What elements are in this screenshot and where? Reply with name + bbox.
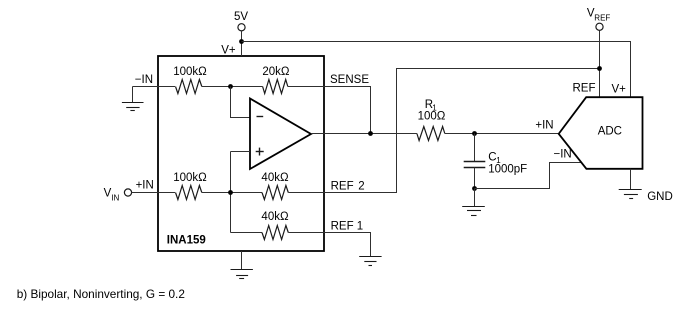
wire: row3 left segment from node B vertical xyxy=(231,232,263,234)
wire: op-amp output to R1 xyxy=(311,133,417,135)
svg-text:GND: GND xyxy=(647,191,673,203)
ADC U2 xyxy=(559,97,643,169)
op-amp A1 xyxy=(250,99,311,170)
svg-text:INA159: INA159 xyxy=(167,235,206,247)
svg-text:b) Bipolar, Noninverting, G =: b) Bipolar, Noninverting, G = 0.2 xyxy=(17,287,185,301)
wire: INA159 ground stem xyxy=(241,251,243,270)
wire: ground stem below C1 xyxy=(474,189,476,207)
wire: node A down to op-amp inverting input xyxy=(231,87,251,118)
svg-text:REF 1: REF 1 xyxy=(331,220,364,232)
wire: vertical node B run (row2 junction down to row3) xyxy=(230,152,232,233)
junction dot 5V rail xyxy=(239,39,244,44)
ground at C1 xyxy=(462,207,485,216)
VIN input terminal xyxy=(124,189,131,196)
INA159 box U1 xyxy=(158,56,324,251)
wire: 5V rail across to ADC V+ xyxy=(242,42,631,98)
VREF terminal xyxy=(596,23,603,30)
wire: REF1 out and down to ground xyxy=(324,233,371,257)
resistor 40k (node B to REF2) xyxy=(262,186,288,200)
wire: ADC ground stem xyxy=(630,169,632,190)
svg-text:ADC: ADC xyxy=(598,125,622,137)
svg-text:100kΩ: 100kΩ xyxy=(173,66,207,78)
svg-text:V+: V+ xyxy=(612,84,627,96)
resistor 100k (row 1, -IN to node A) xyxy=(176,80,202,94)
svg-text:SENSE: SENSE xyxy=(330,74,369,86)
wire: +IN lead into box (row2) xyxy=(132,192,176,194)
svg-text:+IN: +IN xyxy=(136,179,154,191)
svg-text:REF: REF xyxy=(573,83,596,95)
resistor 40k (REF1 row) xyxy=(262,226,288,240)
svg-text:−IN: −IN xyxy=(554,149,572,161)
svg-text:+IN: +IN xyxy=(535,120,553,132)
wire: row2 middle segment xyxy=(202,192,262,194)
junction dot output/SENSE xyxy=(368,131,373,136)
wire: -IN drop to ground xyxy=(132,87,134,103)
wire: row1 right segment to box edge xyxy=(288,86,324,88)
svg-text:1000pF: 1000pF xyxy=(488,164,527,176)
wire: 5V down to box V+ pin xyxy=(241,31,243,56)
svg-text:20kΩ: 20kΩ xyxy=(262,66,290,78)
resistor 20k (node A to SENSE) xyxy=(263,80,288,94)
wire: C1 bottom to ground node xyxy=(474,168,476,189)
wire: row2 right segment to box edge xyxy=(288,192,324,194)
junction dot at C1 top xyxy=(472,131,477,136)
svg-text:5V: 5V xyxy=(234,11,248,23)
ground at -IN input xyxy=(122,103,144,111)
wire: -IN lead into box (row1) xyxy=(133,86,159,88)
node A junction dot xyxy=(228,84,233,89)
svg-text:40kΩ: 40kΩ xyxy=(261,172,289,184)
junction dot VREF/REF2 xyxy=(597,66,602,71)
svg-text:100kΩ: 100kΩ xyxy=(173,172,207,184)
wire: op-amp noninverting input from node B xyxy=(231,151,251,153)
resistor R1 xyxy=(417,127,445,141)
wire: row3 right segment to box edge xyxy=(288,232,324,234)
wire: SENSE out and down to output node xyxy=(324,87,371,134)
wire: R1 to ADC +IN xyxy=(445,133,559,135)
svg-text:IN: IN xyxy=(111,194,119,203)
ground at ADC xyxy=(619,190,642,199)
wire: row1 left segment inside box xyxy=(158,86,175,88)
svg-text:40kΩ: 40kΩ xyxy=(261,211,289,223)
resistor 100k (row 2, +IN to node B) xyxy=(176,186,202,200)
ground at REF1 xyxy=(359,257,381,266)
svg-text:−IN: −IN xyxy=(135,74,153,86)
svg-text:REF 2: REF 2 xyxy=(331,180,365,192)
5V supply terminal xyxy=(238,24,245,31)
svg-text:REF: REF xyxy=(594,13,610,22)
capacitor C1 xyxy=(464,162,486,168)
wire: row1 middle segment xyxy=(202,86,263,88)
junction dot C1 bottom xyxy=(472,186,477,191)
svg-text:100Ω: 100Ω xyxy=(418,111,446,123)
wire: C1 node to ADC -IN xyxy=(475,163,581,189)
wire: REF2 out, up and across to VREF node xyxy=(324,69,600,193)
node B junction dot xyxy=(228,190,233,195)
svg-text:V+: V+ xyxy=(221,44,236,56)
ground at INA159 xyxy=(231,270,253,279)
wire: down to C1 xyxy=(474,134,476,162)
wire: VREF down to ADC REF pin xyxy=(599,30,601,97)
